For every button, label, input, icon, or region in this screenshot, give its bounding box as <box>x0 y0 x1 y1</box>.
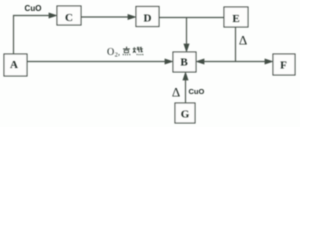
svg-text:F: F <box>280 60 287 72</box>
svg-text:Δ: Δ <box>172 85 180 100</box>
svg-text:CuO: CuO <box>25 4 42 13</box>
box A <box>4 54 27 76</box>
wire C to D <box>82 16 131 18</box>
wire A to B long horizontal <box>28 61 168 63</box>
label dian (Chinese: ignite char 1) drawn as strokes <box>123 47 130 56</box>
box B <box>173 52 196 72</box>
arrowhead into B left <box>165 59 173 64</box>
wire G up to B <box>185 78 187 103</box>
box C <box>57 6 81 25</box>
wire A up to C with CuO label <box>14 16 52 55</box>
svg-text:,: , <box>118 48 120 57</box>
arrowhead into C <box>49 13 57 18</box>
svg-text:O: O <box>107 47 114 58</box>
arrowhead into D <box>128 15 136 20</box>
wire E down to B-F line <box>235 28 237 62</box>
box E <box>224 7 248 27</box>
svg-text:C: C <box>65 12 73 24</box>
box F <box>273 54 295 75</box>
svg-text:B: B <box>180 57 188 69</box>
arrowhead into F left <box>265 59 273 64</box>
svg-text:Δ: Δ <box>239 33 247 48</box>
arrowhead into B right <box>197 59 205 64</box>
wire junction down to B <box>186 18 188 47</box>
svg-text:G: G <box>181 109 190 121</box>
box D <box>136 7 159 27</box>
label ran (Chinese: ignite char 2) drawn as strokes <box>133 47 143 55</box>
wire B to F double arrow <box>203 61 267 63</box>
svg-text:E: E <box>232 13 239 25</box>
svg-text:D: D <box>144 13 152 25</box>
arrowhead into B top <box>184 44 189 52</box>
svg-text:CuO: CuO <box>189 87 205 96</box>
wire D to E <box>160 17 225 19</box>
box G <box>175 103 195 123</box>
svg-text:A: A <box>10 59 18 71</box>
arrowhead into B bottom <box>183 73 188 81</box>
